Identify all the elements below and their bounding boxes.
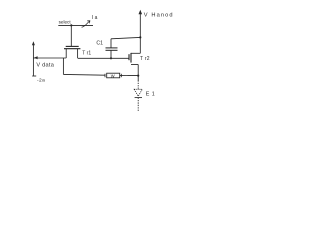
tick left of W box	[104, 74, 106, 77]
svg-text:V data: V data	[36, 62, 54, 68]
svg-text:I a: I a	[92, 15, 98, 21]
wire C1 to supply rail	[111, 37, 140, 38]
node select junction dot	[70, 24, 72, 26]
arrowhead at data wire meeting rail	[34, 56, 38, 59]
transistor Tr1 gate bar	[66, 45, 79, 47]
svg-text:T r1: T r1	[82, 50, 91, 56]
svg-text:C1: C1	[96, 41, 103, 47]
diode E1 cathode bar	[135, 97, 142, 99]
wire dashed to EL element	[137, 80, 139, 89]
svg-text:-2a: -2a	[37, 78, 45, 84]
arrowhead top of data rail	[32, 41, 35, 45]
arrowhead supply top	[139, 10, 143, 14]
wire lower branch vertical	[62, 58, 64, 74]
wire Tr1 drain leg	[77, 49, 79, 58]
capacitor C1 bottom lead	[110, 50, 112, 58]
svg-text:E 1: E 1	[146, 91, 155, 97]
capacitor C1 top lead	[110, 39, 112, 48]
tick at bottom of data rail	[32, 75, 36, 77]
wire supply rail vertical	[139, 14, 141, 54]
svg-text:T r2: T r2	[140, 56, 150, 62]
wire Tr2 drain leg	[131, 52, 140, 54]
wire lower branch horizontal left	[63, 73, 105, 76]
wire Tr2 source drop	[137, 65, 139, 81]
resistor W box	[107, 73, 120, 78]
wire Tr2 source leg	[131, 64, 138, 66]
svg-text:W: W	[111, 73, 115, 78]
wire data column rail	[32, 43, 34, 76]
node supply rail junction dot	[139, 36, 141, 38]
wire data line horizontal	[33, 57, 66, 59]
diode E1 triangle (dashed)	[134, 89, 142, 96]
svg-text:select: select	[59, 20, 72, 25]
capacitor C1 bottom plate	[106, 49, 118, 51]
wire lower branch horizontal right	[120, 74, 139, 76]
node capacitor junction dot	[110, 57, 112, 59]
wire dashed below E1	[137, 98, 139, 112]
wire gate lead of Tr1	[70, 25, 72, 46]
svg-text:V Hanod: V Hanod	[144, 12, 174, 18]
node W junction dot	[137, 75, 139, 77]
wire Tr1 source leg	[65, 49, 67, 58]
transistor Tr2 gate bar	[128, 54, 130, 60]
arrow select pointer (1a)	[82, 21, 90, 27]
capacitor C1 top plate	[106, 47, 118, 49]
tick right of W box	[120, 74, 122, 77]
transistor Tr1 channel bar	[64, 48, 80, 50]
wire select line	[58, 24, 93, 26]
transistor Tr2 channel bar	[130, 53, 132, 63]
wire node A horizontal (Tr1 drain to Tr2 gate)	[78, 57, 129, 59]
